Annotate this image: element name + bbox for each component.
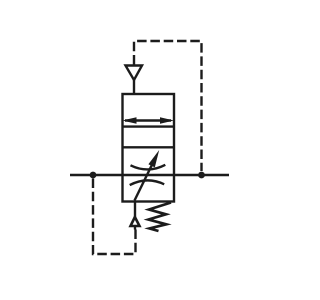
vent triangle <box>126 66 143 81</box>
wire pilot dashed bottom loop <box>93 179 136 255</box>
valve body V1 <box>123 94 175 202</box>
adjustment arrow shaft <box>135 163 154 201</box>
wire check to valve <box>134 202 136 218</box>
wire vent stub <box>133 80 135 95</box>
double arrow shaft <box>125 119 171 121</box>
wire pilot dashed top loop <box>134 41 202 171</box>
adjustment arrow head <box>148 150 159 167</box>
throttle arc upper <box>131 165 166 170</box>
valve body divider upper <box>123 125 175 127</box>
valve body divider lower <box>123 146 175 148</box>
double arrow left head <box>123 117 137 124</box>
double arrow right head <box>160 117 174 124</box>
node left junction <box>90 172 97 179</box>
pilot check triangle <box>131 217 140 226</box>
spring S1 <box>149 203 172 232</box>
wire main flow line <box>70 174 229 177</box>
node right junction <box>198 172 205 179</box>
wire check stub below <box>134 226 136 230</box>
throttle arc lower <box>130 180 165 185</box>
